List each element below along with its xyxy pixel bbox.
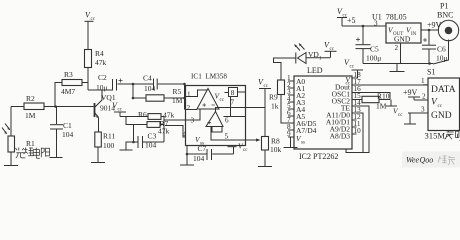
U1 GND pin 2 bbox=[400, 43, 402, 64]
wire IC1 pin7 output bbox=[246, 107, 266, 109]
svg-text:Qoo: Qoo bbox=[420, 156, 434, 165]
capacitor C1 bbox=[50, 107, 63, 158]
svg-text:LED: LED bbox=[307, 66, 323, 75]
capacitor C5 bbox=[356, 26, 371, 64]
svg-text:cc: cc bbox=[398, 113, 403, 118]
svg-text:R10: R10 bbox=[377, 92, 390, 101]
op-amp U-A of IC1 LM358 bbox=[186, 86, 246, 146]
Vcc bar (C7 right) bbox=[228, 147, 237, 154]
svg-text:P1: P1 bbox=[440, 2, 448, 11]
315M transmitter module box bbox=[428, 78, 460, 131]
svg-text:+9V: +9V bbox=[403, 88, 418, 97]
svg-text:10: 10 bbox=[354, 127, 362, 135]
svg-text:47k: 47k bbox=[95, 58, 107, 67]
svg-text:104: 104 bbox=[193, 154, 205, 163]
wire to pin 3 bbox=[164, 119, 186, 121]
IC2 left pin stubs 1-8 bbox=[288, 81, 294, 137]
svg-text:1: 1 bbox=[187, 91, 191, 99]
svg-text:S1: S1 bbox=[427, 68, 435, 77]
ground (R1) bbox=[4, 165, 18, 167]
svg-text:100: 100 bbox=[103, 141, 115, 150]
+9V bar (315M Vcc) bbox=[408, 97, 420, 100]
svg-text:1k: 1k bbox=[271, 102, 279, 111]
svg-text:1M: 1M bbox=[172, 96, 183, 105]
resistor R10 bbox=[362, 96, 391, 106]
svg-text:6: 6 bbox=[225, 117, 229, 125]
svg-text:R3: R3 bbox=[64, 70, 73, 79]
node rail/C6 bbox=[428, 62, 431, 65]
node B (R5 junction) bbox=[132, 97, 135, 100]
svg-text:R2: R2 bbox=[26, 94, 35, 103]
op-amp U-B of IC1 LM358 bbox=[206, 108, 246, 141]
resistor R2 bbox=[11, 103, 94, 110]
svg-text:cc: cc bbox=[243, 148, 248, 153]
svg-text:R11: R11 bbox=[103, 132, 115, 141]
svg-text:C7: C7 bbox=[198, 144, 207, 153]
svg-text:BNC: BNC bbox=[437, 11, 453, 20]
resistor R9 bbox=[278, 80, 295, 123]
svg-text:3: 3 bbox=[191, 117, 195, 125]
resistor R11 bbox=[95, 132, 102, 162]
resistor R6 bbox=[120, 114, 164, 120]
resistor R7 bbox=[126, 117, 164, 143]
svg-text:R6: R6 bbox=[138, 110, 147, 119]
ground (IC2 Vss) bbox=[284, 137, 298, 148]
photoresistor R1 bbox=[2, 107, 15, 166]
Vcc bar (IC2 pin18) bbox=[352, 69, 364, 71]
svg-text:10k: 10k bbox=[270, 145, 282, 154]
svg-text:Wee: Wee bbox=[406, 156, 419, 165]
svg-text:C6: C6 bbox=[437, 45, 446, 54]
IC2 PT2262 box bbox=[294, 76, 352, 149]
svg-text:3: 3 bbox=[421, 106, 425, 114]
wire +9V bbox=[421, 29, 439, 31]
ground (C3) bbox=[120, 149, 133, 151]
capacitor C4 bbox=[133, 79, 185, 110]
svg-text:104: 104 bbox=[62, 130, 74, 139]
svg-text:cc: cc bbox=[264, 84, 269, 89]
svg-text:1M: 1M bbox=[25, 111, 36, 120]
svg-text:VD: VD bbox=[308, 50, 319, 59]
svg-text:2: 2 bbox=[422, 93, 426, 101]
svg-text:cc: cc bbox=[91, 17, 96, 22]
Vcc supply (bias divider) bbox=[114, 112, 126, 117]
svg-text:A8/D3: A8/D3 bbox=[330, 132, 351, 141]
svg-text:1M: 1M bbox=[376, 102, 387, 111]
svg-text:C3: C3 bbox=[148, 132, 157, 141]
svg-text:GND: GND bbox=[431, 111, 452, 121]
wire +5 output node bbox=[337, 18, 386, 27]
svg-text:10μ: 10μ bbox=[436, 54, 448, 63]
Vcc supply (comparator divider) bbox=[259, 89, 271, 137]
svg-text:104: 104 bbox=[144, 84, 156, 93]
svg-text:4: 4 bbox=[183, 131, 187, 139]
svg-text:cc: cc bbox=[330, 47, 335, 52]
resistor R8 bbox=[262, 137, 269, 167]
svg-text:IC2 PT2262: IC2 PT2262 bbox=[299, 152, 338, 161]
315M pin stubs bbox=[408, 85, 428, 113]
capacitor C2 (electrolytic, coupling) bbox=[88, 79, 133, 91]
Vcc bar (R10 right) bbox=[386, 105, 397, 107]
svg-text:C1: C1 bbox=[63, 121, 72, 130]
svg-text:104: 104 bbox=[145, 141, 157, 150]
switch S1 bbox=[433, 60, 449, 64]
svg-text:5: 5 bbox=[225, 133, 229, 141]
svg-text:315M: 315M bbox=[425, 131, 446, 141]
svg-text:+5: +5 bbox=[347, 16, 356, 25]
ground symbol (rail) bbox=[390, 64, 405, 72]
capacitor C6 bbox=[422, 30, 436, 64]
capacitor C3 bbox=[126, 125, 164, 150]
svg-text:1: 1 bbox=[319, 57, 322, 62]
node: base junction bbox=[54, 105, 57, 108]
node C3 junction bbox=[132, 141, 135, 144]
svg-text:2: 2 bbox=[187, 104, 191, 112]
svg-text:7: 7 bbox=[231, 99, 235, 107]
node A (C2/C4 junction) bbox=[132, 83, 135, 86]
transistor VQ1 bbox=[95, 90, 103, 132]
regulator U1 78L05 bbox=[386, 23, 421, 43]
svg-text:R4: R4 bbox=[95, 49, 104, 58]
resistor R4 bbox=[85, 50, 92, 91]
IC2 right pin stubs bbox=[346, 71, 428, 153]
svg-text:C2: C2 bbox=[98, 73, 107, 82]
svg-text:ss: ss bbox=[301, 141, 305, 146]
svg-text:DATA: DATA bbox=[431, 85, 456, 95]
wire node column bbox=[132, 84, 134, 98]
svg-text:cc: cc bbox=[350, 65, 355, 70]
wire IC1 pin5 with arrow bbox=[246, 138, 261, 141]
svg-text:C5: C5 bbox=[370, 45, 379, 54]
svg-text:R9: R9 bbox=[269, 93, 278, 102]
svg-text:100μ: 100μ bbox=[366, 54, 381, 63]
node C7 junction bbox=[186, 153, 189, 156]
ground (315M GND) bbox=[404, 113, 416, 124]
svg-text:8: 8 bbox=[231, 89, 235, 97]
IC1 pin 4 stub wire bbox=[165, 126, 186, 138]
resistor R3 bbox=[55, 80, 88, 107]
Vcc supply symbol top-left bbox=[85, 21, 94, 49]
svg-text:cc: cc bbox=[438, 104, 443, 109]
svg-text:2: 2 bbox=[395, 44, 399, 52]
svg-text:+9V: +9V bbox=[427, 21, 442, 30]
svg-text:IN: IN bbox=[411, 32, 417, 37]
svg-text:4M7: 4M7 bbox=[61, 87, 75, 96]
node C6 junction bbox=[428, 29, 431, 32]
connector P1 BNC bbox=[438, 20, 458, 60]
capacitor C7 bbox=[187, 146, 234, 161]
label 光敏电阻 (photoresistor) bbox=[15, 148, 49, 159]
node C5 junction bbox=[362, 25, 365, 28]
ground (C1) bbox=[50, 157, 63, 159]
svg-text:cc: cc bbox=[220, 98, 225, 103]
svg-text:R1: R1 bbox=[26, 139, 35, 148]
svg-text:R5: R5 bbox=[173, 87, 182, 96]
svg-text:1: 1 bbox=[421, 77, 425, 85]
svg-text:IC1 LM358: IC1 LM358 bbox=[191, 73, 227, 81]
LED VD1 bbox=[274, 44, 337, 81]
svg-text:47k: 47k bbox=[158, 127, 170, 136]
svg-text:C4: C4 bbox=[143, 74, 152, 83]
svg-text:cc: cc bbox=[118, 108, 123, 113]
ground (R11) bbox=[91, 162, 105, 164]
svg-text:3: 3 bbox=[374, 20, 378, 28]
ground (R8) bbox=[258, 166, 272, 168]
svg-text:9: 9 bbox=[287, 130, 291, 138]
pin 8 box inside IC1 bbox=[225, 88, 246, 117]
watermark band bbox=[402, 152, 460, 168]
svg-text:10μ: 10μ bbox=[96, 83, 108, 92]
ground (C7) bbox=[180, 154, 194, 165]
ground rail bbox=[363, 63, 433, 65]
svg-text:GND: GND bbox=[394, 35, 411, 44]
resistor R5 bbox=[133, 95, 185, 101]
node: IC1 input junction bbox=[183, 83, 186, 86]
